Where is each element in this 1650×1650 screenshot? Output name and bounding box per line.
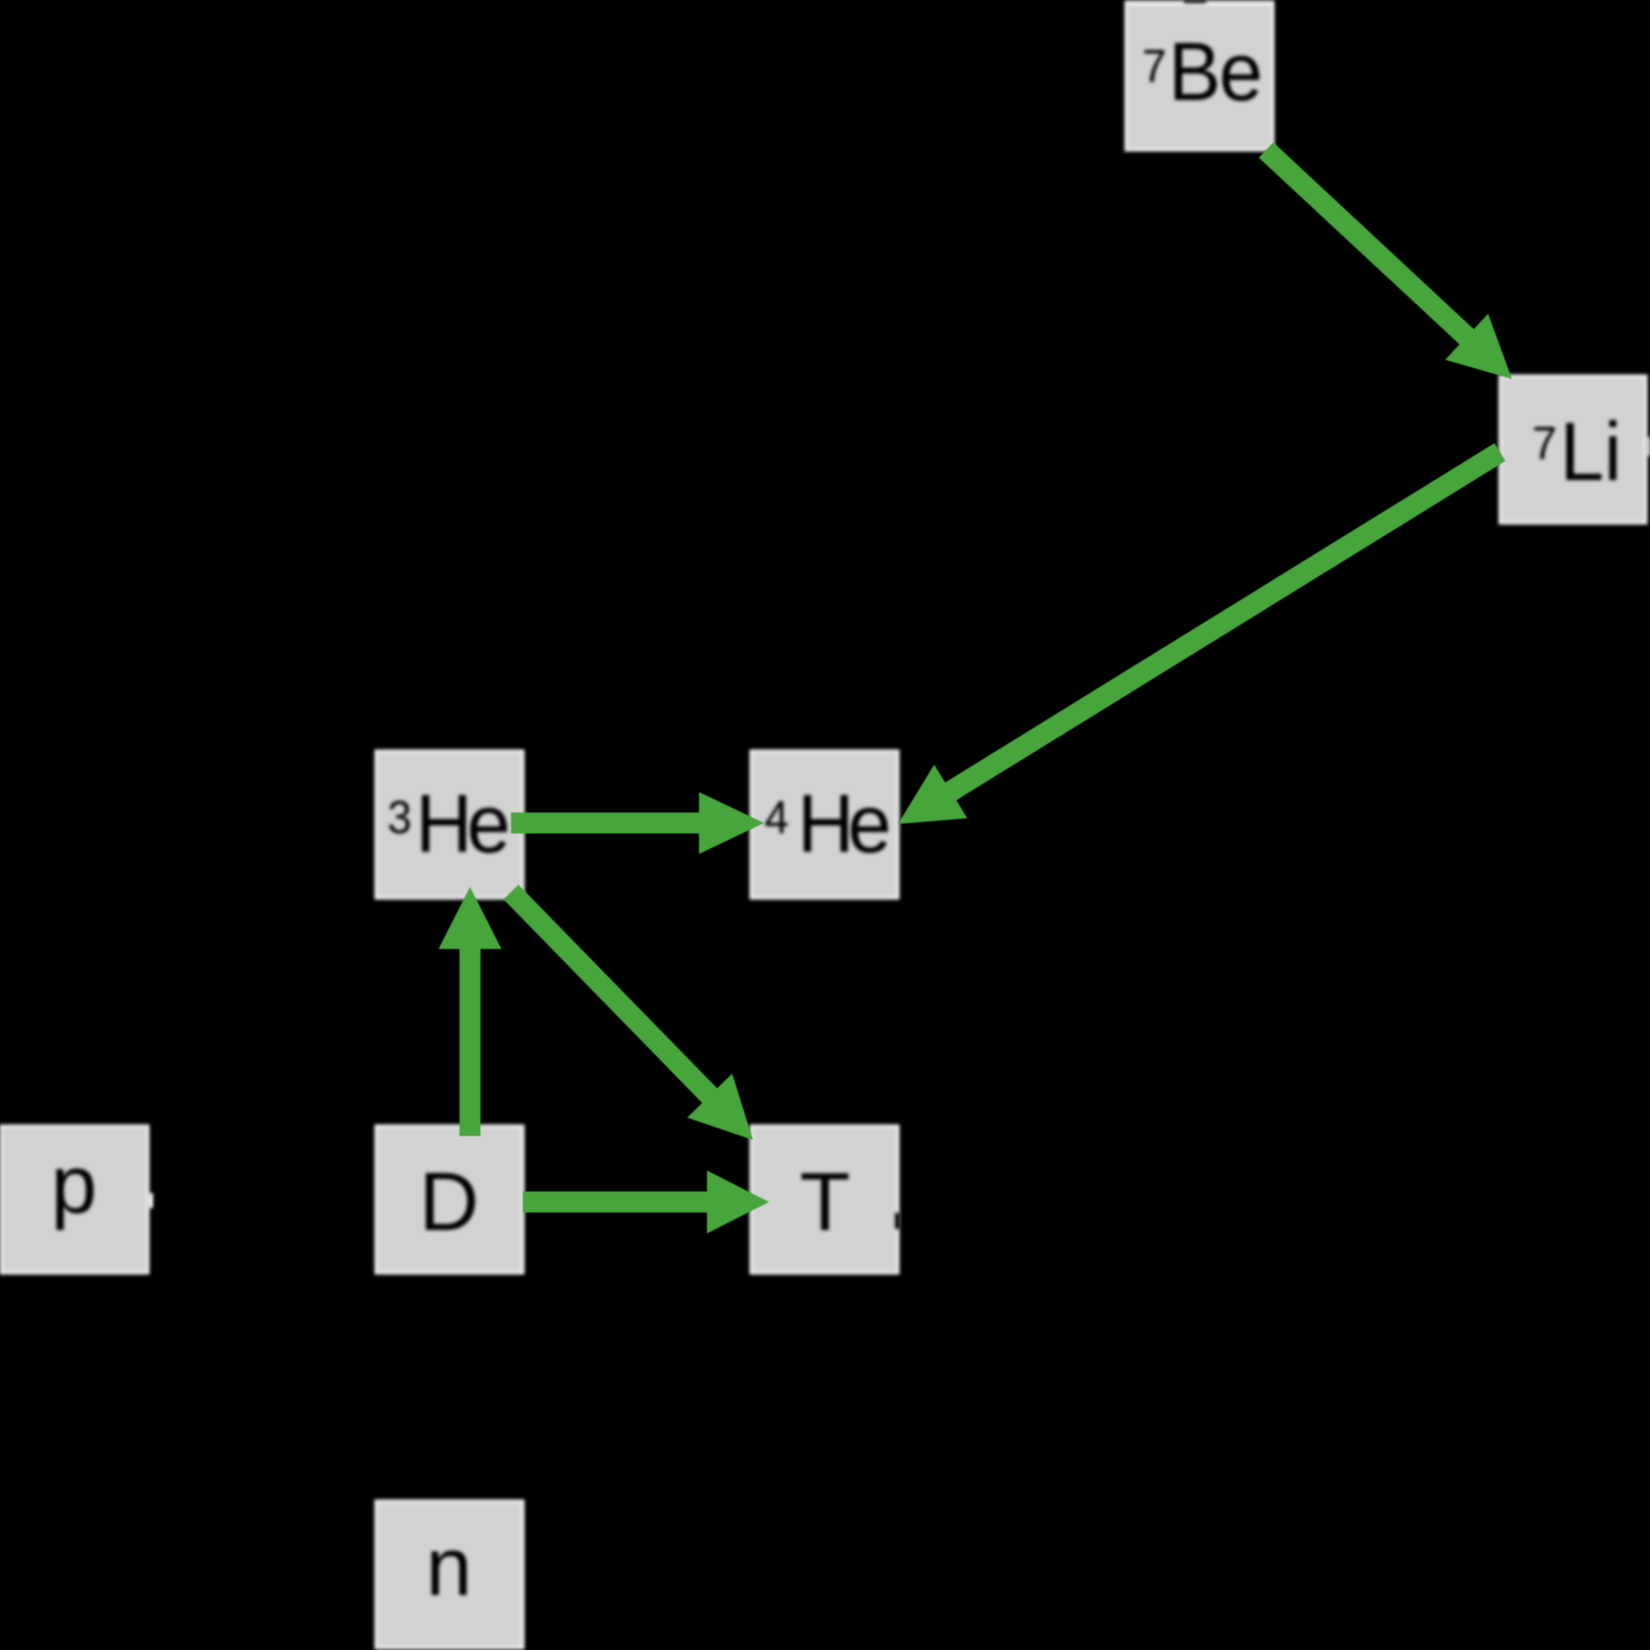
node 7Li right edge white stub bbox=[1646, 437, 1650, 456]
node 7Be box bbox=[1126, 4, 1273, 150]
node 7Be cut strip above bbox=[1125, 0, 1275, 3]
black notch T box right edge bbox=[895, 1213, 900, 1229]
wire A4 arrow D to 3He bbox=[439, 887, 502, 1136]
node 3He box bbox=[376, 751, 523, 898]
node n box bbox=[376, 1501, 523, 1648]
node p white arrow stub bbox=[148, 1193, 153, 1208]
wire A2 arrow 7Li to 4He bbox=[898, 443, 1506, 824]
wire A5 arrow 3He to T bbox=[504, 885, 754, 1140]
node T box bbox=[751, 1126, 898, 1273]
wire A3 arrow 3He to 4He bbox=[511, 792, 764, 854]
wire A1 arrow 7Be to 7Li bbox=[1259, 142, 1512, 379]
svg-text:D: D bbox=[419, 1155, 479, 1248]
node D box bbox=[376, 1126, 523, 1273]
svg-text:n: n bbox=[426, 1520, 472, 1613]
node 4He box bbox=[751, 751, 898, 898]
svg-text:T: T bbox=[800, 1155, 851, 1248]
svg-text:p: p bbox=[51, 1138, 97, 1231]
black notch above 7Be bbox=[1184, 0, 1206, 3]
node 7Li box bbox=[1500, 376, 1646, 523]
node p box bbox=[1, 1126, 148, 1273]
wire A6 arrow D to T bbox=[523, 1171, 769, 1234]
